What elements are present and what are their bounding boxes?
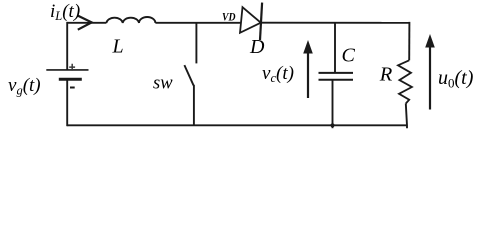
battery Vg long plus plate [46, 69, 88, 71]
svg-text:iL(t): iL(t) [50, 1, 80, 23]
wire capacitor bottom stub [332, 80, 334, 129]
svg-text:vc(t): vc(t) [262, 63, 294, 85]
svg-text:C: C [342, 45, 356, 67]
wire capacitor top stub [334, 23, 336, 73]
battery Vg short minus plate [59, 78, 82, 81]
resistor R zigzag [398, 60, 412, 103]
svg-text:R: R [379, 63, 393, 85]
wire left branch below battery [66, 79, 68, 126]
svg-text:sw: sw [153, 74, 173, 94]
capacitor C bottom plate [319, 79, 354, 81]
wire switch top segment [195, 23, 197, 64]
wire right branch down to resistor [408, 22, 410, 60]
svg-text:VD: VD [222, 12, 236, 24]
svg-text:vg(t): vg(t) [8, 75, 41, 97]
wire resistor bottom stub [406, 104, 407, 129]
wire diode cathode to top-right corner [261, 22, 410, 24]
junction dot capacitor to bottom rail [330, 123, 334, 127]
arrow vc(t) shaft [307, 50, 309, 98]
diode D triangle [240, 7, 261, 33]
switch sw blade [184, 65, 193, 85]
arrow u0(t) head [425, 34, 435, 48]
arrow u0(t) shaft [429, 45, 431, 110]
battery Vg plus sign [69, 64, 75, 71]
svg-text:L: L [112, 35, 124, 57]
arrow vc(t) head [303, 40, 313, 54]
inductor L [106, 17, 155, 23]
wire inductor to diode anode [155, 22, 241, 24]
capacitor C top plate [319, 72, 354, 74]
wire switch bottom segment [193, 85, 195, 126]
svg-text:u0(t): u0(t) [438, 67, 474, 90]
wire bottom rail [67, 124, 407, 126]
wire left branch above battery [66, 22, 68, 70]
battery Vg minus sign [70, 87, 75, 89]
arrowhead iL current open V [78, 16, 92, 30]
wire top rail from source corner to inductor [67, 22, 106, 24]
svg-text:D: D [249, 36, 265, 58]
diode cathode bar [260, 3, 262, 40]
